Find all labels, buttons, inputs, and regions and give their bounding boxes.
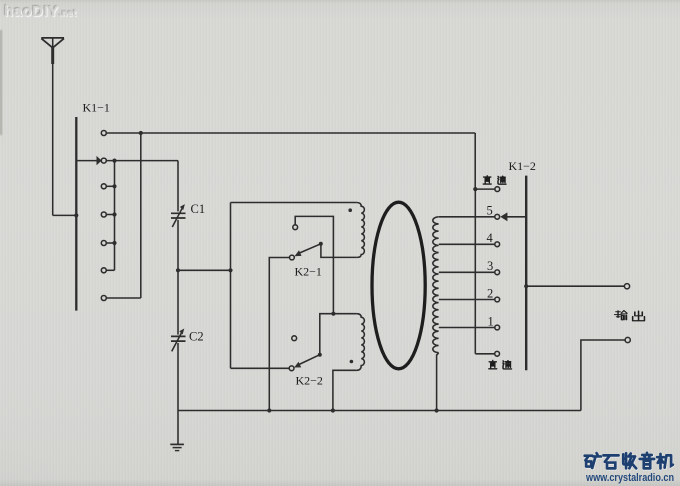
svg-text:4: 4	[487, 231, 494, 245]
K2-2 moving contact	[289, 366, 294, 371]
tap 5 wire	[439, 216, 495, 218]
K1-1 wiper arrow on contact 2	[77, 156, 101, 165]
svg-text:1: 1	[488, 315, 494, 329]
K1-2 wiper arrow to tap5	[500, 212, 526, 221]
wire bus of contacts 2-6	[114, 161, 116, 271]
K1-1 contact 2	[101, 158, 106, 163]
antenna	[41, 38, 64, 216]
direct-pass top terminal	[475, 187, 499, 192]
label output 输出	[615, 311, 645, 321]
switch K1-2 bar	[525, 176, 527, 371]
switch K1-1 bar	[75, 117, 77, 311]
wire antenna to K1-1 bar	[53, 213, 79, 217]
tap 1 terminal	[495, 325, 500, 330]
polarity dot L1a	[348, 208, 352, 212]
tap 5 terminal	[495, 214, 500, 219]
svg-text:C1: C1	[191, 202, 206, 216]
K1-1 contact 7	[101, 296, 106, 301]
wire direct-pass top from contact1	[473, 133, 477, 191]
wire bottom rail	[178, 408, 581, 412]
wire K2-1 upper contact to node	[295, 216, 335, 315]
K1-1 contact 5	[101, 241, 116, 246]
wire output 1	[526, 285, 624, 287]
direct-pass bottom terminal	[495, 351, 500, 356]
svg-text:C2: C2	[189, 330, 204, 344]
capacitor C2	[171, 270, 186, 410]
label direct-pass bottom 直通	[489, 360, 512, 368]
K2-1 moving contact	[290, 255, 295, 260]
wire L1a bottom to K2-1 pivot	[321, 244, 357, 258]
wire contact2 to C1	[106, 159, 178, 163]
K1-1 contact 1	[101, 131, 106, 136]
tap 4 wire	[439, 243, 495, 245]
capacitor C1	[171, 161, 186, 271]
K2-2 upper contact (open)	[292, 336, 297, 341]
wire top edge to coil L1a	[231, 202, 357, 204]
inductor L1a	[357, 203, 365, 258]
tap 3 terminal	[495, 270, 500, 275]
output node on K1-2 bar	[524, 284, 528, 288]
tap 1 wire	[439, 327, 495, 329]
svg-text:5: 5	[487, 204, 493, 218]
wire vertical from node to contact 7	[106, 133, 141, 298]
svg-text:K2−2: K2−2	[296, 374, 323, 388]
wire K2-1 wiper to bottom rail	[269, 258, 289, 411]
K1-1 contact 6	[101, 268, 114, 273]
switch K2-1 pivot	[319, 242, 323, 246]
wire direct-pass vertical	[475, 189, 494, 354]
switch K2-2 pivot	[318, 353, 322, 357]
svg-text:K1−2: K1−2	[509, 159, 536, 173]
wire left vertical to K2-2 wiper	[231, 203, 290, 369]
svg-text:www.crystalradio.cn: www.crystalradio.cn	[585, 472, 674, 484]
svg-text:2: 2	[487, 287, 493, 301]
watermark haoDIY.net	[4, 3, 77, 20]
ferrite core ellipse	[372, 202, 425, 369]
svg-text:K2−1: K2−1	[295, 265, 322, 279]
watermark 矿石收音机	[585, 453, 673, 468]
wire K2-2 pivot to coil L1b	[320, 314, 357, 355]
label direct-pass top 直通	[483, 176, 506, 184]
output terminal 1	[624, 284, 629, 289]
inductor L1b	[357, 314, 365, 371]
polarity dot L1b	[350, 360, 354, 364]
wire L1b bottom to rail	[333, 370, 357, 410]
wire output 2 to rail	[581, 340, 625, 411]
wire L2 bottom to rail	[437, 353, 439, 411]
switch K2-1 wiper arm	[295, 244, 321, 256]
svg-text:3: 3	[487, 259, 493, 273]
tap 3 wire	[439, 271, 495, 273]
K1-1 contact 3	[101, 184, 116, 189]
wire contact1 to right	[106, 131, 475, 135]
K1-1 contact 4	[101, 212, 116, 217]
tap 2 terminal	[495, 297, 500, 302]
K2-1 upper contact	[293, 225, 298, 230]
switch K2-2 wiper arm	[294, 355, 320, 368]
ground	[170, 411, 184, 451]
svg-text:K1−1: K1−1	[83, 101, 110, 115]
node C1/C2 junction	[176, 268, 233, 272]
tap 2 wire	[439, 299, 495, 301]
watermark www.crystalradio.cn	[585, 472, 674, 484]
tap 4 terminal	[495, 242, 500, 247]
output terminal 2	[625, 337, 630, 342]
inductor L2 secondary	[433, 217, 439, 353]
